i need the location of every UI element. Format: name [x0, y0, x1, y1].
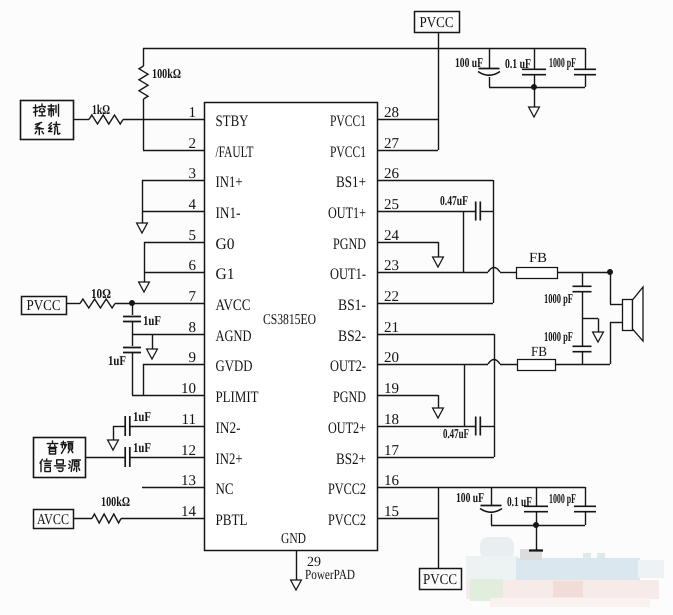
- wire C14 bottom stub: [585, 512, 587, 525]
- wire OUT2 strap: [464, 364, 466, 426]
- pin 25 name OUT1+: [328, 205, 366, 222]
- wire pin 25 stub: [377, 211, 475, 213]
- svg-text:CS3815EO: CS3815EO: [263, 312, 316, 328]
- svg-text:100 uF: 100 uF: [455, 55, 483, 70]
- svg-text:PVCC: PVCC: [420, 15, 454, 31]
- wire PGND1 drop: [438, 242, 440, 258]
- svg-text:0.1 uF: 0.1 uF: [505, 56, 531, 71]
- svg-text:STBY: STBY: [216, 113, 249, 130]
- pin 6 name G1: [216, 266, 235, 283]
- wire PVCC top drop to pins 28-27: [438, 32, 440, 150]
- svg-text:G0: G0: [216, 236, 235, 253]
- capacitor C5 100uF polarized: [478, 69, 500, 76]
- wire C13 bottom stub: [536, 512, 538, 525]
- label 100kOhm: [152, 66, 181, 81]
- capacitor C9 0.47uF: [476, 417, 481, 436]
- pin 20 name OUT2-: [330, 358, 366, 375]
- capacitor C10 1000pF: [573, 286, 592, 291]
- wire FB2 to speaker return: [555, 364, 610, 366]
- glyph yin (音): [47, 441, 58, 454]
- svg-text:PowerPAD: PowerPAD: [305, 568, 355, 583]
- ground arrow speaker mid: [593, 332, 604, 342]
- resistor R1 1kOhm: [89, 115, 123, 124]
- wire pin 2 stub: [143, 150, 204, 152]
- svg-text:AVCC: AVCC: [216, 297, 251, 314]
- svg-text:6: 6: [189, 258, 197, 274]
- ground arrow PGND1: [433, 257, 444, 267]
- pin 4 number: [189, 197, 197, 213]
- label AVCC box: [37, 512, 69, 528]
- wire R3 to pin 14: [121, 518, 204, 520]
- pin 5 number: [189, 228, 197, 244]
- pin 7 number: [189, 289, 197, 305]
- wire top bank gnd drop: [534, 87, 536, 108]
- wire R1 to pin 1: [123, 119, 204, 121]
- svg-text:GND: GND: [281, 531, 306, 547]
- glyph xi (系): [35, 122, 43, 134]
- wire pin 22 stub: [377, 303, 493, 305]
- wire pin 6 stub: [144, 272, 204, 274]
- pin 16 name PVCC2: [328, 481, 366, 498]
- pin 21 name BS2-: [338, 328, 366, 345]
- svg-text:19: 19: [384, 381, 399, 397]
- svg-text:11: 11: [182, 412, 196, 428]
- ferrite bead FB1: [517, 268, 558, 279]
- wire bottom bank gnd drop: [536, 525, 538, 550]
- wire pin 21 stub: [377, 334, 494, 336]
- pin 2 name /FAULT: [216, 144, 254, 161]
- label C10 1000pF: [544, 291, 573, 306]
- pin 15 number: [384, 504, 399, 520]
- ground arrow below pins 3-4: [137, 223, 148, 233]
- wire pin 27 stub: [377, 150, 438, 152]
- svg-text:IN1-: IN1-: [216, 205, 241, 222]
- svg-text:5: 5: [189, 228, 197, 244]
- pin 19 name PGND: [333, 389, 366, 406]
- svg-text:BS2+: BS2+: [336, 451, 366, 468]
- pin 24 number: [384, 228, 400, 244]
- pin 15 name PVCC2: [328, 512, 366, 529]
- pin 3 name IN1+: [216, 174, 243, 191]
- svg-text:PVCC2: PVCC2: [328, 481, 366, 498]
- pin 26 number: [384, 166, 400, 182]
- wire pin 20 to hop: [377, 364, 488, 366]
- pin 4 name IN1-: [216, 205, 241, 222]
- capacitor C4 1uF: [125, 447, 130, 467]
- wire R2 to pin 7: [115, 303, 204, 305]
- wire pin 17 stub: [377, 457, 494, 459]
- svg-text:PLIMIT: PLIMIT: [216, 389, 259, 406]
- label C14 1000pF: [549, 491, 576, 506]
- wire speaker minus lead: [610, 322, 622, 324]
- wire C4 to pin 12: [130, 457, 204, 459]
- IC pin label GND: [281, 531, 306, 547]
- pin 21 number: [384, 320, 399, 336]
- box PVCC left: [22, 297, 67, 315]
- svg-text:27: 27: [384, 136, 400, 152]
- wire C12 top stub: [491, 487, 493, 505]
- svg-text:/FAULT: /FAULT: [216, 144, 254, 161]
- wire C11 to return rail: [582, 352, 584, 364]
- wire pin 8 stub: [132, 334, 204, 336]
- label C2 1uF: [108, 353, 126, 368]
- wire C9 to BS2 strap: [480, 426, 494, 428]
- pin 27 name PVCC1: [330, 144, 366, 161]
- speaker LS1 cone: [633, 287, 644, 341]
- ground bar bottom bank: [529, 549, 543, 551]
- label PVCC bottom box: [423, 572, 457, 588]
- svg-text:FB: FB: [531, 345, 547, 360]
- svg-text:17: 17: [384, 443, 400, 459]
- junction top bank gnd node: [531, 84, 537, 90]
- resistor R2 10Ohm: [80, 299, 115, 308]
- wire C10 to midpoint: [582, 292, 584, 319]
- pin 22 number: [384, 289, 399, 305]
- capacitor C6 0.1uF: [522, 69, 546, 74]
- svg-text:21: 21: [384, 320, 399, 336]
- wire C12 bottom stub: [491, 514, 493, 525]
- capacitor C13 0.1uF: [524, 506, 548, 511]
- wire PVCC2 drop: [438, 487, 440, 568]
- svg-text:PVCC: PVCC: [27, 298, 61, 314]
- svg-text:AVCC: AVCC: [37, 512, 69, 528]
- wire pin 23 to hop: [377, 272, 488, 274]
- wire pin 4 stub: [142, 211, 204, 213]
- pin 26 name BS1+: [336, 174, 366, 191]
- label C12 100uF: [456, 490, 484, 505]
- label C5 100uF: [455, 55, 483, 70]
- pin 16 number: [384, 473, 400, 489]
- pin 18 number: [384, 412, 399, 428]
- wire pin 26 stub: [377, 180, 493, 182]
- wire FB1 to speaker node: [557, 272, 610, 274]
- wire midpoint gnd drop: [598, 319, 600, 334]
- svg-text:14: 14: [181, 504, 197, 520]
- svg-text:PVCC1: PVCC1: [330, 144, 366, 161]
- svg-text:1000 pF: 1000 pF: [544, 291, 573, 306]
- glyph xin (信): [40, 459, 51, 472]
- wire pin 11 gnd drop: [113, 426, 115, 441]
- svg-text:1uF: 1uF: [133, 440, 151, 455]
- box AVCC: [34, 510, 74, 529]
- svg-text:PVCC2: PVCC2: [328, 512, 366, 529]
- label C9 0.47uF: [443, 426, 469, 441]
- svg-text:1kΩ: 1kΩ: [92, 102, 110, 117]
- wire C11 top lead: [582, 319, 584, 347]
- pin 8 name AGND: [216, 328, 252, 345]
- box PVCC top: [415, 12, 460, 33]
- svg-text:PBTL: PBTL: [216, 512, 248, 529]
- svg-text:G1: G1: [216, 266, 235, 283]
- pin 19 number: [384, 381, 399, 397]
- svg-text:OUT1-: OUT1-: [330, 266, 366, 283]
- wire bottom bank rail: [491, 525, 585, 527]
- svg-text:OUT2-: OUT2-: [330, 358, 366, 375]
- wire C2 to pin 10 line: [132, 352, 134, 395]
- wire hop to FB2: [500, 364, 517, 366]
- pin 24 name PGND: [333, 236, 366, 253]
- label C3 1uF: [133, 409, 151, 424]
- svg-text:2: 2: [189, 136, 197, 152]
- svg-text:FB: FB: [529, 251, 547, 266]
- svg-text:22: 22: [384, 289, 399, 305]
- ground arrow below pins 5-6: [139, 282, 150, 292]
- wire pin1 node to pin2: [143, 119, 145, 150]
- wire C5 top stub: [489, 48, 491, 68]
- pin 23 number: [384, 258, 399, 274]
- resistor R 100kOhm (vertical): [139, 66, 148, 99]
- svg-text:BS2-: BS2-: [338, 328, 366, 345]
- label C8 0.47uF: [440, 193, 468, 208]
- pin 11 name IN2-: [216, 420, 241, 437]
- pin 12 number: [181, 443, 196, 459]
- svg-text:25: 25: [384, 197, 399, 213]
- svg-text:BS1+: BS1+: [336, 174, 366, 191]
- wire BS2 strap: [494, 334, 496, 457]
- wire PGND2 drop: [438, 395, 440, 409]
- wire 100k top lead: [143, 48, 145, 66]
- capacitor C3 1uF: [125, 416, 130, 436]
- pin 14 number: [181, 504, 197, 520]
- pin 25 number: [384, 197, 399, 213]
- wire top bank bottom rail: [489, 87, 585, 89]
- svg-text:15: 15: [384, 504, 399, 520]
- svg-text:IN2-: IN2-: [216, 420, 241, 437]
- wire 100k bottom lead to pin1: [143, 99, 145, 119]
- capacitor C2 1uF: [123, 348, 141, 353]
- junction node AVCC: [129, 300, 135, 306]
- svg-text:23: 23: [384, 258, 399, 274]
- svg-text:AGND: AGND: [216, 328, 252, 345]
- svg-text:BS1-: BS1-: [338, 297, 366, 314]
- label 10Ohm: [91, 286, 111, 301]
- pin 9 name GVDD: [216, 358, 253, 375]
- wire C7 top stub: [585, 48, 587, 69]
- label PVCC top box: [420, 15, 454, 31]
- wire top PVCC rail: [143, 48, 585, 50]
- svg-text:100kΩ: 100kΩ: [152, 66, 181, 81]
- svg-text:1uF: 1uF: [143, 313, 161, 328]
- wire pin 3 stub: [142, 180, 204, 182]
- pin 17 name BS2+: [336, 451, 366, 468]
- pin 18 name OUT2+: [328, 420, 366, 437]
- pin 28 number: [384, 105, 399, 121]
- speaker LS1 driver body: [623, 300, 633, 331]
- svg-text:PVCC1: PVCC1: [330, 113, 366, 130]
- svg-text:9: 9: [189, 350, 197, 366]
- pin 13 name NC: [216, 481, 234, 498]
- wire pins 5-6 strap: [144, 242, 146, 283]
- svg-text:100kΩ: 100kΩ: [101, 494, 130, 509]
- pin 7 name AVCC: [216, 297, 251, 314]
- wire C7 bottom stub: [585, 75, 587, 87]
- svg-text:26: 26: [384, 166, 400, 182]
- svg-text:0.47uF: 0.47uF: [443, 426, 469, 441]
- label PowerPAD: [305, 568, 355, 583]
- pin 10 name PLIMIT: [216, 389, 259, 406]
- capacitor C12 100uF polarized: [480, 506, 502, 513]
- glyph hao (号): [55, 460, 66, 472]
- svg-text:0.1 uF: 0.1 uF: [507, 494, 532, 509]
- wire node to C1: [132, 303, 134, 315]
- svg-text:IN2+: IN2+: [216, 451, 243, 468]
- ground arrow PGND2: [433, 408, 444, 418]
- pin 11 number: [182, 412, 196, 428]
- svg-text:1000 pF: 1000 pF: [544, 329, 573, 344]
- label C6 0.1uF: [505, 56, 531, 71]
- wire C10 top lead: [582, 272, 584, 286]
- wire audio box to C4: [85, 457, 125, 459]
- glyph yuan (源): [69, 460, 81, 472]
- svg-text:IN1+: IN1+: [216, 174, 243, 191]
- svg-text:10Ω: 10Ω: [91, 286, 111, 301]
- wire C6 bottom stub: [534, 75, 536, 87]
- wire BS1 strap: [493, 180, 495, 303]
- pin 8 number: [189, 320, 197, 336]
- capacitor C14 1000pF: [574, 506, 596, 511]
- pin 20 number: [384, 350, 399, 366]
- wire C5 bottom stub: [489, 77, 491, 87]
- box control-system: [21, 101, 74, 140]
- svg-text:100 uF: 100 uF: [456, 490, 484, 505]
- svg-text:OUT1+: OUT1+: [328, 205, 366, 222]
- label FB1: [529, 251, 547, 266]
- wire C14 top stub: [585, 487, 587, 506]
- wire pin8 line to C2: [132, 335, 134, 347]
- capacitor C8 0.47uF: [476, 202, 481, 221]
- wire pin 16 rail: [377, 487, 585, 489]
- wire hop to FB1: [500, 272, 516, 274]
- wire speaker minus drop: [610, 322, 612, 364]
- svg-text:PGND: PGND: [333, 236, 366, 253]
- capacitor C7 1000pF: [574, 69, 596, 74]
- ground arrow pin 11: [108, 440, 119, 450]
- junction bottom bank gnd node: [533, 522, 539, 528]
- svg-text:13: 13: [181, 473, 196, 489]
- wire C3 to pin 11: [130, 426, 204, 428]
- pin 17 number: [384, 443, 400, 459]
- wire pins 3-4 strap: [142, 180, 144, 224]
- ground arrow AGND: [147, 349, 158, 359]
- box PVCC bottom: [420, 569, 462, 590]
- capacitor C1 1uF: [123, 317, 141, 322]
- label PVCC left box: [27, 298, 61, 314]
- label pin 29 number: [307, 555, 321, 570]
- ground arrow top bank: [529, 107, 540, 117]
- pin 2 number: [189, 136, 197, 152]
- svg-text:1: 1: [189, 105, 197, 121]
- pin 14 name PBTL: [216, 512, 248, 529]
- label FB2: [531, 345, 547, 360]
- wire hop over BS2 strap: [488, 360, 500, 365]
- wire gnd to C3: [113, 426, 125, 428]
- junction speaker plus node: [607, 269, 613, 275]
- svg-text:28: 28: [384, 105, 399, 121]
- wire control box to R1: [73, 119, 89, 121]
- svg-text:7: 7: [189, 289, 197, 305]
- wire pin 18 stub: [377, 426, 475, 428]
- wire AVCC box to R3: [73, 518, 92, 520]
- pin 6 number: [189, 258, 197, 274]
- wire C13 top stub: [536, 487, 538, 506]
- glyph kong (控): [33, 104, 45, 116]
- glyph zhi (制): [48, 104, 59, 116]
- wire speaker plus drop: [610, 272, 612, 304]
- svg-text:GVDD: GVDD: [216, 358, 253, 375]
- wire C1 to pin8 line: [132, 321, 134, 335]
- svg-text:PVCC: PVCC: [423, 572, 457, 588]
- svg-text:24: 24: [384, 228, 400, 244]
- svg-text:18: 18: [384, 412, 399, 428]
- svg-text:NC: NC: [216, 481, 234, 498]
- pin 5 name G0: [216, 236, 235, 253]
- svg-text:16: 16: [384, 473, 400, 489]
- wire pin 5 stub: [144, 242, 204, 244]
- IC U1 CS3815EO body: [205, 103, 378, 551]
- glyph pin (频): [61, 441, 73, 453]
- pin 22 name BS1-: [338, 297, 366, 314]
- capacitor C11 1000pF: [573, 346, 592, 351]
- svg-text:1uF: 1uF: [108, 353, 126, 368]
- wire AGND drop: [152, 335, 154, 351]
- wire speaker plus lead: [610, 304, 622, 306]
- label C1 1uF: [143, 313, 161, 328]
- wire C6 top stub: [534, 48, 536, 69]
- wire pin 15 stub: [377, 518, 438, 520]
- IC part number label CS3815EO: [263, 312, 316, 328]
- svg-text:1000 pF: 1000 pF: [549, 491, 576, 506]
- label C7 1000pF: [549, 55, 576, 70]
- wire OUT1 strap: [463, 211, 465, 272]
- svg-text:8: 8: [189, 320, 197, 336]
- wire C8 to BS1 strap: [480, 211, 493, 213]
- wire cap midpoint: [582, 318, 598, 320]
- svg-text:12: 12: [181, 443, 196, 459]
- label C13 0.1uF: [507, 494, 532, 509]
- pin 1 name STBY: [216, 113, 249, 130]
- svg-text:PGND: PGND: [333, 389, 366, 406]
- wire pin 9 stub: [143, 364, 204, 366]
- pin 12 name IN2+: [216, 451, 243, 468]
- label R3 100kOhm: [101, 494, 130, 509]
- svg-text:4: 4: [189, 197, 197, 213]
- wire pin 24 stub: [377, 242, 438, 244]
- pin 27 number: [384, 136, 400, 152]
- pin 13 number: [181, 473, 196, 489]
- svg-text:20: 20: [384, 350, 399, 366]
- ferrite bead FB2: [518, 360, 556, 371]
- wire pin 28 stub: [377, 119, 438, 121]
- glyph tong (统): [49, 122, 60, 134]
- resistor R3 100kOhm: [92, 514, 121, 523]
- ground arrow PowerPAD: [291, 580, 302, 590]
- svg-text:0.47uF: 0.47uF: [440, 193, 468, 208]
- wire pin 10 stub: [132, 395, 204, 397]
- box audio-source: [34, 438, 86, 478]
- pin 9 number: [189, 350, 197, 366]
- label C11 1000pF: [544, 329, 573, 344]
- wire pin 19 stub: [377, 395, 438, 397]
- svg-text:1000 pF: 1000 pF: [549, 55, 576, 70]
- pin 10 number: [181, 381, 196, 397]
- pin 23 name OUT1-: [330, 266, 366, 283]
- wire PowerPAD drop: [296, 550, 298, 581]
- wire pins 9-10 strap: [143, 364, 145, 395]
- svg-text:10: 10: [181, 381, 196, 397]
- label C4 1uF: [133, 440, 151, 455]
- wire hop over BS1 strap: [488, 268, 500, 273]
- label 1kOhm: [92, 102, 110, 117]
